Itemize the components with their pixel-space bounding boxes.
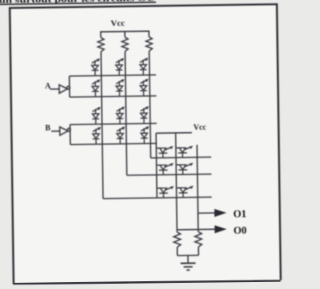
svg-text:B: B: [45, 123, 51, 132]
svg-text:Vcc: Vcc: [111, 18, 125, 28]
svg-text:Vcc: Vcc: [193, 123, 206, 132]
svg-text:O0: O0: [233, 225, 246, 236]
svg-text:O1: O1: [233, 209, 246, 220]
